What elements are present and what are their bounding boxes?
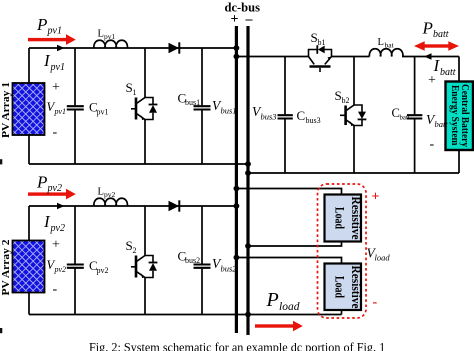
svg-text:bus2: bus2 — [221, 264, 238, 274]
svg-text:b2: b2 — [342, 96, 350, 105]
svg-text:PV Array 1: PV Array 1 — [0, 82, 12, 138]
svg-text:pv2: pv2 — [54, 265, 67, 274]
svg-text:pv1: pv1 — [104, 32, 116, 41]
svg-text:Fig. 2: System schematic for a: Fig. 2: System schematic for an example … — [89, 341, 385, 351]
svg-text:+: + — [231, 12, 239, 27]
svg-text:bat: bat — [385, 41, 395, 50]
svg-text:P: P — [36, 173, 47, 192]
svg-text:bus2: bus2 — [185, 256, 200, 265]
svg-text:P: P — [266, 289, 279, 311]
svg-text:L: L — [98, 187, 104, 198]
svg-text:pv1: pv1 — [50, 62, 65, 73]
svg-text:–: – — [245, 12, 254, 27]
svg-text:b1: b1 — [318, 38, 326, 47]
svg-text:pv2: pv2 — [47, 183, 62, 194]
svg-text:batt: batt — [435, 119, 449, 129]
svg-text:pv1: pv1 — [54, 107, 67, 116]
svg-text:pv2: pv2 — [104, 190, 116, 199]
svg-text:load: load — [375, 253, 391, 263]
svg-text:batt: batt — [433, 29, 449, 40]
svg-text:-: - — [373, 295, 378, 310]
svg-text:-: - — [53, 125, 58, 140]
svg-text:C: C — [297, 108, 306, 123]
svg-text:pv2: pv2 — [50, 223, 65, 234]
svg-text:bus3: bus3 — [261, 112, 277, 122]
svg-text:pv1: pv1 — [47, 26, 62, 37]
svg-text:PV Array 2: PV Array 2 — [0, 239, 12, 296]
svg-text:-: - — [430, 137, 435, 152]
svg-text:pv2: pv2 — [97, 266, 109, 275]
svg-text:load: load — [279, 301, 300, 313]
svg-text:+: + — [372, 190, 380, 205]
svg-text:Load: Load — [332, 207, 346, 229]
svg-text:+: + — [428, 73, 436, 88]
svg-text:Resistive: Resistive — [349, 266, 363, 309]
svg-text:bus3: bus3 — [306, 116, 321, 125]
svg-text:Load: Load — [332, 276, 346, 298]
svg-text:Energy System: Energy System — [449, 85, 460, 146]
svg-text:1: 1 — [133, 88, 137, 97]
svg-text:pv1: pv1 — [97, 108, 109, 117]
svg-text:batt: batt — [440, 67, 456, 78]
svg-text:Resistive: Resistive — [349, 197, 363, 240]
svg-text:+: + — [52, 238, 60, 253]
svg-text:L: L — [98, 29, 104, 40]
svg-text:bus1: bus1 — [221, 106, 237, 116]
svg-text:bus1: bus1 — [185, 98, 200, 107]
svg-text:L: L — [378, 37, 384, 48]
svg-text:batt: batt — [400, 115, 410, 122]
svg-text:2: 2 — [133, 246, 137, 255]
svg-text:-: - — [53, 282, 58, 297]
svg-text:+: + — [52, 80, 60, 95]
svg-text:P: P — [422, 19, 433, 38]
svg-text:P: P — [36, 15, 47, 34]
